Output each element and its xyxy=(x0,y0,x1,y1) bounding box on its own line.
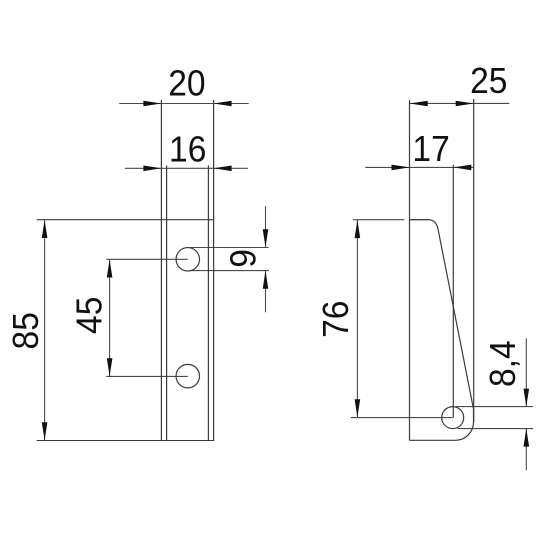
node arrow 76 top xyxy=(355,220,361,238)
svg-text:20: 20 xyxy=(168,63,205,104)
svg-text:9: 9 xyxy=(223,249,264,268)
node arrow 76 bottom xyxy=(355,399,361,417)
node arrow 16 left xyxy=(143,166,161,172)
wire side view outline xyxy=(410,220,474,441)
node arrow 9 bottom xyxy=(263,271,269,289)
wire ext top 85 + plate top edge xyxy=(37,219,215,221)
wire ext 45 lower hole center xyxy=(106,375,188,377)
wire dim line 17 xyxy=(365,166,473,168)
wire ext 9 bottom tangent xyxy=(190,270,269,272)
wire side view left edge / ext xyxy=(409,100,411,440)
wire ext 8,4 bottom tangent xyxy=(458,428,534,430)
wire dim line 20 xyxy=(119,103,249,105)
node upper hole xyxy=(176,248,200,272)
svg-text:16: 16 xyxy=(169,129,206,170)
wire dim line 9 upper tail xyxy=(265,206,267,247)
wire plate outer left edge / ext xyxy=(160,100,162,441)
wire ext 9 top tangent xyxy=(186,247,269,249)
wire dim line 45 vertical xyxy=(109,259,111,376)
node label 9 xyxy=(223,249,264,268)
node arrow 20 right xyxy=(214,101,232,107)
wire ext 76 bottom hole center xyxy=(351,417,453,419)
svg-text:17: 17 xyxy=(412,129,449,170)
wire ext 76 top xyxy=(353,219,404,221)
wire plate inner left edge / ext 16 xyxy=(166,166,168,441)
node arrow 45 bottom xyxy=(107,358,113,376)
wire ext 17 right vertical xyxy=(452,165,454,418)
node label 8,4 xyxy=(483,340,524,387)
node label 17 xyxy=(412,129,449,170)
wire side view top ext segment xyxy=(411,219,430,221)
wire ext 8,4 top tangent xyxy=(456,406,533,408)
wire dim line 76 vertical xyxy=(356,220,358,417)
wire dim line 85 vertical xyxy=(44,220,46,440)
node side view hole xyxy=(442,407,464,429)
node label 85 xyxy=(6,312,47,349)
wire plate inner right edge / ext 16 xyxy=(207,166,209,441)
node label 76 xyxy=(316,301,357,338)
node arrow 25 left xyxy=(410,101,428,107)
node arrow 25 right xyxy=(456,101,474,107)
wire ext 45 upper hole center xyxy=(106,258,188,260)
node arrow 16 right xyxy=(214,166,232,172)
node arrow 45 top xyxy=(107,260,113,278)
node arrow 17 left xyxy=(392,165,410,171)
node label 45 xyxy=(69,297,110,334)
node lower hole xyxy=(176,364,200,388)
svg-text:85: 85 xyxy=(6,312,47,349)
svg-text:45: 45 xyxy=(69,297,110,334)
node arrow 85 bottom xyxy=(42,422,48,440)
node arrow 17 right xyxy=(453,165,471,171)
node arrow 8,4 bottom xyxy=(524,429,530,447)
svg-text:8,4: 8,4 xyxy=(483,340,524,387)
wire dim line 16 xyxy=(125,167,248,169)
svg-text:25: 25 xyxy=(470,61,507,102)
node label 25 xyxy=(470,61,507,102)
wire dim line 9 lower tail xyxy=(265,271,267,313)
wire ext bottom 85 + plate bottom edge xyxy=(37,440,215,442)
wire side view right edge / ext 25 xyxy=(473,99,475,423)
wire dim line 8,4 lower tail xyxy=(525,429,527,471)
node arrow 20 left xyxy=(143,101,161,107)
node arrow 8,4 top xyxy=(524,389,530,407)
node label 20 xyxy=(168,63,205,104)
node arrow 9 top xyxy=(263,229,269,247)
wire dim line 25 xyxy=(410,102,510,104)
wire plate outer right edge / ext xyxy=(213,100,215,441)
wire dim line 8,4 upper tail xyxy=(525,338,527,406)
node label 16 xyxy=(169,129,206,170)
svg-text:76: 76 xyxy=(316,301,357,338)
node arrow 85 top xyxy=(42,220,48,238)
